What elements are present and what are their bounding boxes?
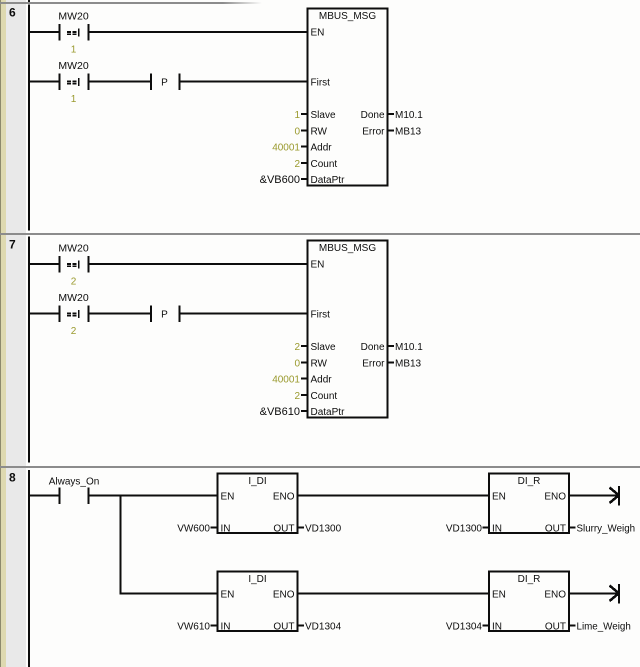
svg-text:DI_R: DI_R: [518, 476, 541, 487]
svg-text:Count: Count: [311, 391, 338, 402]
svg-text:OUT: OUT: [545, 622, 566, 633]
svg-text:DataPtr: DataPtr: [311, 407, 346, 418]
svg-text:MW20: MW20: [58, 60, 88, 72]
svg-text:VW600: VW600: [177, 524, 210, 535]
svg-text:P: P: [161, 78, 168, 89]
svg-text:0: 0: [294, 126, 300, 137]
svg-text:OUT: OUT: [273, 622, 294, 633]
svg-text:M10.1: M10.1: [395, 342, 423, 353]
svg-text:EN: EN: [221, 590, 235, 601]
svg-text:IN: IN: [221, 622, 231, 633]
svg-text:RW: RW: [311, 126, 328, 137]
svg-text:7: 7: [9, 238, 16, 252]
svg-text:Done: Done: [361, 342, 385, 353]
svg-text:ENO: ENO: [544, 590, 566, 601]
svg-text:ENO: ENO: [273, 590, 295, 601]
svg-text:1: 1: [294, 110, 300, 121]
svg-text:2: 2: [71, 326, 77, 337]
svg-text:MB13: MB13: [395, 358, 422, 369]
svg-text:40001: 40001: [272, 143, 300, 154]
svg-text:ENO: ENO: [544, 492, 566, 503]
svg-text:OUT: OUT: [273, 524, 294, 535]
svg-text:Always_On: Always_On: [49, 477, 100, 488]
svg-text:RW: RW: [311, 358, 328, 369]
svg-text:MB13: MB13: [395, 126, 422, 137]
svg-text:VD1304: VD1304: [446, 622, 483, 633]
svg-text:First: First: [311, 78, 331, 89]
svg-text:MBUS_MSG: MBUS_MSG: [319, 243, 376, 254]
svg-text:2: 2: [71, 277, 77, 288]
svg-text:40001: 40001: [272, 375, 300, 386]
svg-text:IN: IN: [492, 524, 502, 535]
svg-text:1: 1: [71, 45, 77, 56]
svg-text:2: 2: [294, 159, 300, 170]
svg-text:8: 8: [9, 471, 16, 485]
svg-text:Addr: Addr: [311, 143, 333, 154]
svg-text:IN: IN: [492, 622, 502, 633]
svg-text:Error: Error: [362, 126, 385, 137]
svg-text:IN: IN: [221, 524, 231, 535]
svg-text:VW610: VW610: [177, 622, 210, 633]
svg-text:ENO: ENO: [273, 492, 295, 503]
svg-text:&VB610: &VB610: [260, 406, 300, 418]
svg-text:DI_R: DI_R: [518, 574, 541, 585]
svg-text:DataPtr: DataPtr: [311, 175, 346, 186]
svg-text:VD1304: VD1304: [305, 622, 342, 633]
svg-text:EN: EN: [492, 492, 506, 503]
svg-text:&VB600: &VB600: [260, 174, 300, 186]
svg-text:Slave: Slave: [311, 110, 336, 121]
svg-text:M10.1: M10.1: [395, 110, 423, 121]
svg-text:2: 2: [294, 342, 300, 353]
svg-text:VD1300: VD1300: [446, 524, 483, 535]
svg-text:1: 1: [71, 94, 77, 105]
svg-text:MW20: MW20: [58, 243, 88, 255]
svg-text:Error: Error: [362, 358, 385, 369]
svg-text:Addr: Addr: [311, 375, 333, 386]
svg-text:EN: EN: [311, 28, 325, 39]
svg-text:First: First: [311, 310, 331, 321]
svg-text:VD1300: VD1300: [305, 524, 342, 535]
svg-text:Slave: Slave: [311, 342, 336, 353]
svg-text:EN: EN: [311, 260, 325, 271]
svg-text:Lime_Weigh: Lime_Weigh: [577, 622, 631, 633]
svg-text:0: 0: [294, 358, 300, 369]
svg-text:OUT: OUT: [545, 524, 566, 535]
svg-text:2: 2: [294, 391, 300, 402]
svg-text:6: 6: [9, 6, 16, 20]
svg-text:I_DI: I_DI: [248, 574, 266, 585]
svg-text:MBUS_MSG: MBUS_MSG: [319, 11, 376, 22]
svg-text:MW20: MW20: [58, 292, 88, 304]
svg-text:Slurry_Weigh: Slurry_Weigh: [577, 524, 636, 535]
svg-text:I_DI: I_DI: [248, 476, 266, 487]
svg-text:EN: EN: [221, 492, 235, 503]
svg-text:MW20: MW20: [58, 11, 88, 23]
svg-text:Count: Count: [311, 159, 338, 170]
svg-text:EN: EN: [492, 590, 506, 601]
svg-text:Done: Done: [361, 110, 385, 121]
svg-text:P: P: [161, 310, 168, 321]
